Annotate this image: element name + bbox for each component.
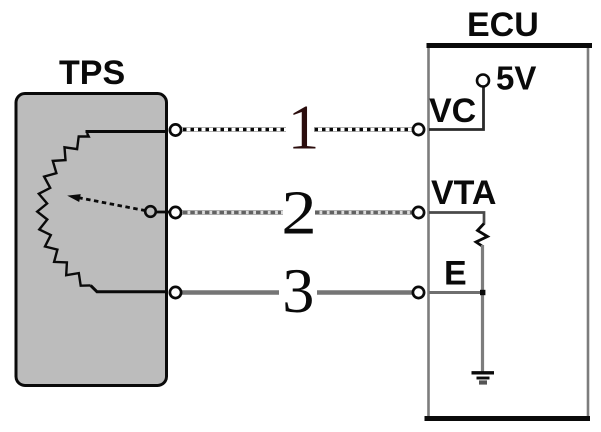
svg-text:2: 2 — [281, 178, 316, 248]
TPS pin 1 terminal — [170, 124, 181, 135]
potentiometer wiper arrow (dashed) — [67, 194, 145, 211]
5V terminal circle — [477, 75, 489, 87]
potentiometer resistive track (zigzag arc) — [37, 133, 90, 286]
ECU VC terminal — [413, 124, 424, 135]
wire 3 (E wire, solid gray) — [182, 290, 412, 294]
TPS pin 3 terminal — [170, 287, 181, 298]
svg-text:3: 3 — [282, 256, 314, 326]
VTA internal wire — [429, 213, 484, 225]
VC internal wire to 5V — [429, 87, 484, 130]
TPS internal wire to pin 1 (top) — [87, 132, 168, 134]
svg-text:E: E — [444, 255, 467, 293]
ground symbol — [472, 373, 495, 383]
ECU VTA terminal — [413, 207, 424, 218]
pull-down resistor (zigzag) — [476, 224, 488, 247]
svg-text:TPS: TPS — [59, 54, 125, 92]
junction dot E/ground net — [480, 290, 485, 295]
TPS internal wire to pin 3 (bottom) — [91, 285, 168, 291]
wiper terminal circle — [145, 206, 156, 217]
wire 1 (VC wire, dashed) — [182, 124, 412, 135]
ECU E terminal — [413, 287, 424, 298]
svg-text:VC: VC — [429, 92, 476, 130]
wire 2 (VTA wire, dashed gray) — [182, 207, 412, 218]
wiper to pin 2 connecting wire — [153, 211, 172, 214]
E internal wire — [429, 291, 483, 294]
svg-text:5V: 5V — [496, 60, 536, 97]
TPS pin 2 terminal — [170, 207, 181, 218]
internal vertical net to ground — [481, 245, 484, 372]
ECU body box — [425, 43, 593, 421]
TPS sensor body box — [16, 94, 167, 386]
svg-text:1: 1 — [288, 93, 320, 163]
svg-text:ECU: ECU — [467, 6, 539, 44]
svg-text:VTA: VTA — [431, 174, 496, 212]
